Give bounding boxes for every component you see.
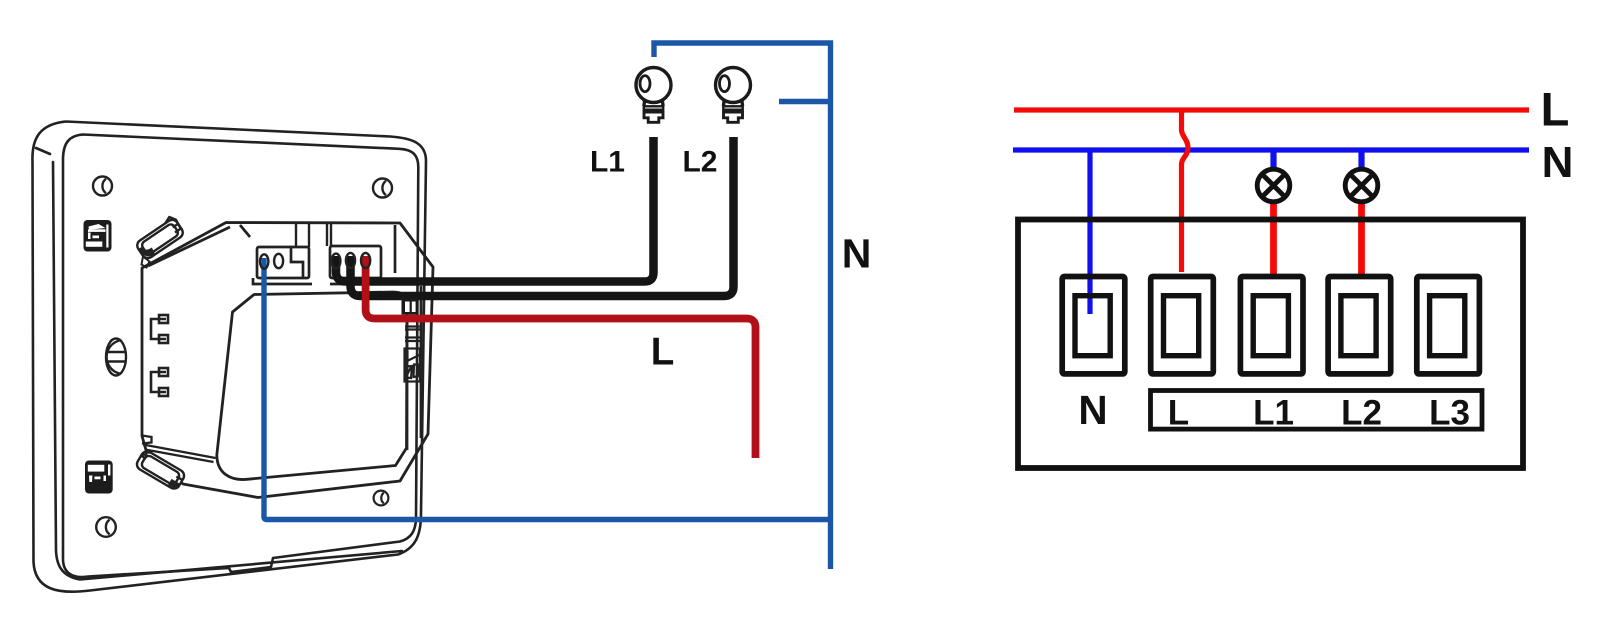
module right band verticals bbox=[407, 286, 421, 450]
switch module silhouette bbox=[142, 223, 433, 498]
screw hole top-right bbox=[373, 179, 392, 198]
svg-text:N: N bbox=[1542, 138, 1574, 187]
blue drop to terminal N bbox=[1087, 150, 1092, 314]
svg-text:L1: L1 bbox=[590, 146, 625, 179]
lamp bulb 1 bbox=[636, 68, 671, 123]
screw hole bottom-left bbox=[96, 517, 116, 537]
terminal L outer bbox=[1151, 277, 1214, 374]
svg-text:L3: L3 bbox=[1429, 394, 1470, 433]
svg-text:N: N bbox=[1078, 387, 1107, 433]
lamp symbol 2 bbox=[1345, 169, 1378, 202]
blue stub near lamp 2 bbox=[779, 99, 833, 104]
screw hole top-left bbox=[93, 177, 112, 196]
clip latch top-left bbox=[84, 220, 112, 252]
svg-text:L: L bbox=[1168, 394, 1189, 433]
bevel corner crease bbox=[36, 148, 50, 154]
switch box bbox=[1018, 220, 1523, 469]
module left edge notch bbox=[142, 436, 152, 444]
red drop to terminal L with hop bbox=[1182, 110, 1189, 272]
module bottom-left inner diagonal bbox=[143, 445, 216, 463]
wall plate (switch rear view) bbox=[32, 122, 426, 592]
terminal block left bbox=[253, 247, 312, 284]
screw hole bottom-right small bbox=[374, 491, 389, 506]
middle-left oval slot bbox=[106, 339, 126, 376]
wall plate left bevel crease bbox=[53, 162, 402, 580]
svg-text:L: L bbox=[1541, 83, 1570, 136]
module recessed back face bbox=[217, 292, 407, 480]
white detail squares on wire bbox=[402, 299, 419, 315]
wedge latch bottom-left bbox=[134, 449, 186, 491]
lamp 2 stub blue bbox=[1358, 150, 1364, 170]
terminal L1 outer bbox=[1240, 277, 1303, 374]
terminal L3 inner bbox=[1430, 296, 1465, 356]
N rail blue bbox=[1013, 147, 1529, 152]
L rail red bbox=[1014, 107, 1529, 112]
red wire L bbox=[366, 256, 756, 458]
svg-text:L1: L1 bbox=[1253, 394, 1294, 433]
lamp symbol 1 bbox=[1257, 169, 1290, 202]
E-bracket left upper bbox=[151, 315, 168, 343]
svg-text:N: N bbox=[842, 231, 872, 277]
blue wire N loop bbox=[264, 258, 833, 520]
lamp bulb 2 bbox=[716, 68, 751, 123]
terminal L inner bbox=[1164, 296, 1199, 356]
black wire to lamp L1 bbox=[336, 137, 654, 282]
wedge latch top-left bbox=[133, 215, 185, 261]
top band dividers bbox=[296, 224, 331, 247]
label strip box bbox=[1151, 391, 1483, 430]
terminal L2 inner bbox=[1341, 296, 1376, 356]
svg-text:L: L bbox=[651, 331, 675, 374]
lamp 2 red stub bbox=[1358, 200, 1365, 274]
clip latch bottom-left bbox=[85, 461, 113, 494]
blue wire N riser bbox=[654, 43, 831, 569]
black wire to lamp L2 bbox=[351, 137, 734, 296]
terminal L1 inner bbox=[1253, 296, 1288, 356]
terminal L2 outer bbox=[1328, 277, 1391, 374]
module inner chamfer line bbox=[148, 227, 230, 266]
wedge leg top bbox=[142, 257, 150, 268]
terminal hole outlines over wires bbox=[260, 253, 370, 269]
terminal block right bbox=[330, 225, 395, 284]
lamp 1 red stub bbox=[1270, 200, 1277, 274]
svg-text:L2: L2 bbox=[1341, 394, 1382, 433]
terminal L3 outer bbox=[1417, 277, 1480, 374]
terminal N outer bbox=[1062, 277, 1125, 374]
terminal N inner bbox=[1075, 296, 1110, 356]
wall plate outer silhouette bbox=[32, 122, 426, 592]
E-bracket left lower bbox=[151, 368, 168, 396]
right-side ladder connector bbox=[405, 327, 421, 382]
wall plate face outline bbox=[63, 135, 418, 578]
module small diagonal bbox=[240, 225, 250, 237]
svg-text:L2: L2 bbox=[682, 146, 717, 179]
lamp 1 stub blue bbox=[1270, 150, 1276, 170]
